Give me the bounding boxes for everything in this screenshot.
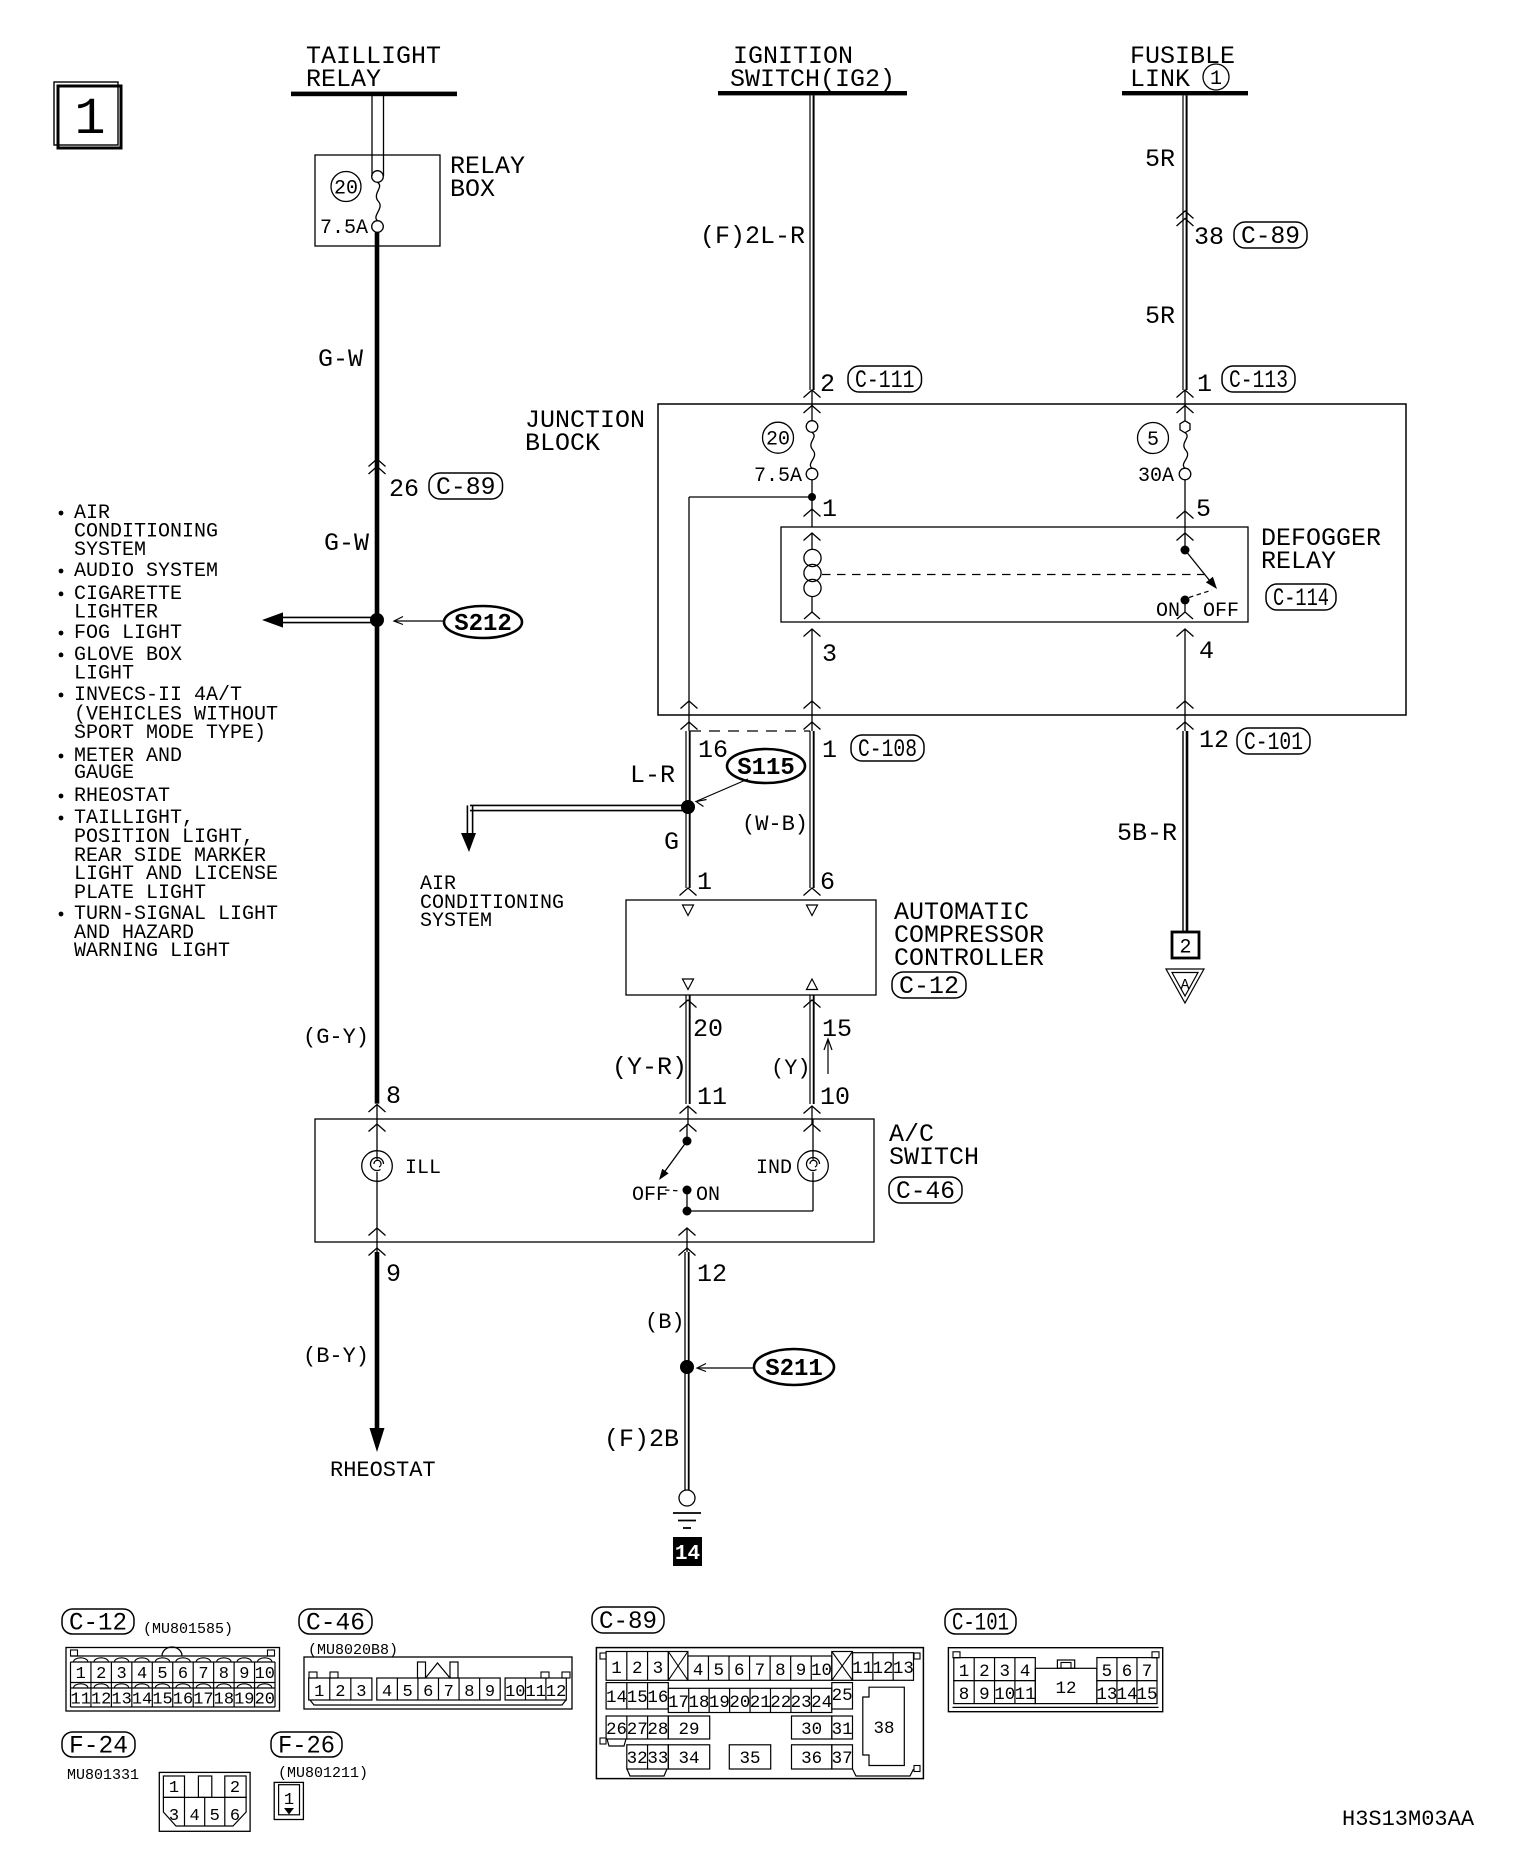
svg-text:20: 20	[334, 178, 358, 201]
svg-text:24: 24	[811, 1693, 832, 1713]
pin 8 into A/C switch	[369, 1082, 402, 1132]
svg-text:4: 4	[1199, 637, 1214, 666]
svg-text:9: 9	[386, 1260, 401, 1289]
svg-text:20: 20	[766, 429, 790, 452]
connector F-24 label	[62, 1732, 135, 1757]
wire taillight relay to relay box (double)	[371, 96, 373, 176]
svg-text:SPORT MODE TYPE): SPORT MODE TYPE)	[74, 722, 266, 745]
svg-text:5B-R: 5B-R	[1117, 819, 1177, 848]
svg-text:C-89: C-89	[1241, 222, 1300, 251]
svg-text:8: 8	[386, 1082, 401, 1111]
svg-text:4: 4	[189, 1807, 199, 1826]
svg-text:1: 1	[1197, 370, 1212, 399]
svg-text:20: 20	[693, 1015, 723, 1044]
splice label S211	[697, 1349, 834, 1385]
svg-text:29: 29	[678, 1720, 699, 1740]
svg-text:FOG LIGHT: FOG LIGHT	[74, 622, 182, 645]
defogger relay coil	[804, 533, 822, 619]
pin 12 connector C-101 below junction block	[1199, 726, 1310, 757]
splice label S212	[394, 606, 522, 638]
svg-text:6: 6	[230, 1807, 240, 1826]
connector C-46 label	[299, 1609, 372, 1634]
wire 5B-R (thick double)	[1182, 731, 1184, 932]
svg-text:28: 28	[647, 1720, 668, 1740]
svg-text:10: 10	[255, 1665, 275, 1684]
connector C-89 label	[592, 1607, 664, 1633]
label AIR CONDITIONING SYSTEM	[420, 873, 564, 933]
svg-text:(B-Y): (B-Y)	[303, 1344, 369, 1369]
svg-text:7.5A: 7.5A	[320, 217, 368, 240]
svg-text:L-R: L-R	[630, 761, 675, 790]
svg-text:5: 5	[157, 1665, 167, 1684]
svg-text:38: 38	[873, 1719, 894, 1739]
svg-text:30: 30	[801, 1720, 822, 1740]
svg-text:22: 22	[770, 1693, 791, 1713]
direction arrow up	[824, 1039, 832, 1074]
svg-text:G-W: G-W	[324, 529, 369, 558]
svg-text:30A: 30A	[1138, 465, 1174, 488]
svg-text:9: 9	[239, 1665, 249, 1684]
svg-text:ON: ON	[696, 1184, 720, 1207]
splice S115 junction dot	[681, 800, 695, 814]
svg-text:(Y): (Y)	[771, 1056, 811, 1081]
svg-text:1: 1	[284, 1791, 294, 1810]
wire (Y) controller to A/C switch (double)	[809, 995, 811, 1104]
svg-text:13: 13	[893, 1659, 914, 1679]
connector C-12 label	[62, 1609, 134, 1634]
svg-text:3: 3	[822, 640, 837, 669]
svg-text:15: 15	[1136, 1685, 1157, 1705]
svg-text:1: 1	[169, 1779, 179, 1798]
svg-text:38: 38	[1194, 223, 1224, 252]
defogger relay contact ON/OFF	[1156, 527, 1239, 623]
svg-text:26: 26	[606, 1720, 627, 1740]
svg-text:C-46: C-46	[896, 1177, 955, 1206]
svg-text:1: 1	[822, 736, 837, 765]
svg-text:2: 2	[1179, 937, 1191, 960]
svg-text:BLOCK: BLOCK	[525, 429, 600, 458]
svg-text:2: 2	[335, 1683, 345, 1702]
svg-text:C-101: C-101	[1244, 728, 1303, 757]
svg-text:11: 11	[71, 1691, 91, 1710]
fusible link fuse 5 30A in junction block	[1138, 390, 1191, 488]
svg-text:20: 20	[729, 1693, 750, 1713]
svg-text:11: 11	[525, 1683, 545, 1702]
svg-text:1: 1	[76, 1665, 86, 1684]
svg-text:4: 4	[693, 1661, 704, 1681]
svg-text:10: 10	[811, 1661, 832, 1681]
pin 3 defogger relay to C-108	[804, 629, 838, 731]
relay box	[315, 152, 525, 246]
page number box 1	[54, 82, 121, 149]
svg-text:F-26: F-26	[278, 1732, 335, 1761]
wire C-108 pin1 down (double)	[809, 731, 811, 888]
svg-text:3: 3	[169, 1807, 179, 1826]
svg-text:SYSTEM: SYSTEM	[420, 910, 492, 933]
svg-text:13: 13	[1096, 1685, 1117, 1705]
pins 1 and 6 into controller	[680, 868, 836, 897]
svg-text:(MU801211): (MU801211)	[278, 1765, 368, 1782]
svg-text:1: 1	[1210, 68, 1222, 91]
svg-text:5: 5	[1196, 495, 1211, 524]
svg-text:ILL: ILL	[405, 1157, 441, 1180]
connector F-26 pinout	[274, 1782, 303, 1819]
svg-text:H3S13M03AA: H3S13M03AA	[1342, 1807, 1475, 1832]
svg-text:1: 1	[611, 1659, 622, 1679]
svg-text:MU801331: MU801331	[67, 1767, 139, 1784]
svg-text:(B): (B)	[645, 1310, 685, 1335]
dashed link coil to contact	[822, 574, 1205, 576]
svg-text:2: 2	[820, 370, 835, 399]
svg-text:11: 11	[852, 1659, 873, 1679]
bullet list of connected systems	[59, 502, 278, 963]
svg-text:12: 12	[1055, 1679, 1076, 1699]
power source label FUSIBLE LINK 1	[1130, 42, 1235, 94]
svg-text:7: 7	[755, 1661, 766, 1681]
fuse 20 7.5A in junction block	[754, 406, 818, 489]
fuse 20 7.5A in relay box	[320, 171, 383, 240]
svg-text:8: 8	[959, 1685, 970, 1705]
wire C-108 pin16 down (double)	[685, 731, 687, 888]
svg-text:23: 23	[791, 1693, 812, 1713]
pins 20 and 15 below controller	[680, 1000, 853, 1044]
svg-text:32: 32	[627, 1749, 648, 1769]
svg-text:5: 5	[1102, 1662, 1113, 1682]
svg-text:2: 2	[979, 1662, 990, 1682]
svg-text:CONTROLLER: CONTROLLER	[894, 944, 1044, 973]
svg-text:27: 27	[627, 1720, 648, 1740]
power source label TAILLIGHT RELAY	[306, 42, 441, 94]
wire ignition switch to junction block (double)	[809, 95, 811, 390]
svg-text:37: 37	[832, 1749, 853, 1769]
svg-text:9: 9	[796, 1661, 807, 1681]
svg-text:1: 1	[822, 495, 837, 524]
svg-text:12: 12	[546, 1683, 566, 1702]
svg-text:RHEOSTAT: RHEOSTAT	[74, 785, 170, 808]
svg-text:10: 10	[820, 1083, 850, 1112]
svg-text:(F)2B: (F)2B	[604, 1425, 679, 1454]
svg-text:14: 14	[675, 1543, 700, 1566]
svg-text:16: 16	[173, 1691, 193, 1710]
pin 4 defogger relay to C-101	[1177, 629, 1215, 731]
svg-text:(G-Y): (G-Y)	[303, 1025, 369, 1050]
svg-text:6: 6	[734, 1661, 745, 1681]
svg-text:14: 14	[132, 1691, 152, 1710]
svg-text:LINK: LINK	[1130, 65, 1190, 94]
wire node1 left branch down to C-108 pin16	[681, 497, 813, 731]
svg-text:5R: 5R	[1145, 302, 1175, 331]
svg-text:16: 16	[698, 736, 728, 765]
svg-text:6: 6	[820, 868, 835, 897]
svg-text:14: 14	[1116, 1685, 1137, 1705]
svg-text:11: 11	[1015, 1685, 1036, 1705]
svg-text:6: 6	[178, 1665, 188, 1684]
svg-text:12: 12	[872, 1659, 893, 1679]
svg-text:C-89: C-89	[599, 1607, 657, 1636]
svg-text:18: 18	[688, 1693, 709, 1713]
pin 2 connector C-111	[804, 366, 922, 413]
svg-text:15: 15	[152, 1691, 172, 1710]
svg-text:15: 15	[627, 1688, 648, 1708]
svg-text:C-89: C-89	[436, 473, 496, 502]
connector crossing 26 C-89	[369, 459, 503, 504]
bus bar ignition switch	[718, 91, 907, 95]
svg-text:7: 7	[1142, 1662, 1153, 1682]
svg-text:8: 8	[464, 1683, 474, 1702]
svg-text:A: A	[1180, 977, 1189, 994]
svg-text:13: 13	[111, 1691, 131, 1710]
svg-text:2: 2	[230, 1779, 240, 1798]
svg-text:9: 9	[979, 1685, 990, 1705]
splice S211 junction dot	[680, 1360, 694, 1374]
node 5 label	[1177, 480, 1212, 527]
svg-text:21: 21	[750, 1693, 771, 1713]
connector F-24 pinout	[159, 1772, 250, 1831]
junction block	[525, 404, 1406, 715]
svg-text:5: 5	[1147, 429, 1159, 452]
connector C-108 dashed	[690, 731, 924, 765]
svg-text:IND: IND	[756, 1157, 792, 1180]
svg-text:6: 6	[1122, 1662, 1133, 1682]
svg-text:2: 2	[632, 1659, 643, 1679]
svg-text:3: 3	[999, 1662, 1010, 1682]
connector crossing 38 C-89	[1177, 211, 1308, 252]
wire (B-Y) to rheostat (thick with arrow)	[303, 1252, 436, 1483]
pins 9 and 12 below A/C switch	[369, 1228, 728, 1289]
svg-text:C-114: C-114	[1273, 584, 1329, 613]
node 1 junction	[804, 480, 838, 527]
off-page triangle A	[1166, 969, 1204, 1003]
svg-text:1: 1	[697, 868, 712, 897]
svg-text:5R: 5R	[1145, 145, 1175, 174]
svg-text:33: 33	[647, 1749, 668, 1769]
svg-text:LIGHT: LIGHT	[74, 663, 134, 686]
svg-text:C-12: C-12	[69, 1609, 127, 1638]
svg-text:19: 19	[234, 1691, 254, 1710]
svg-text:RELAY: RELAY	[306, 65, 381, 94]
svg-text:7.5A: 7.5A	[754, 465, 802, 488]
svg-text:1: 1	[74, 90, 105, 149]
svg-text:12: 12	[1199, 726, 1229, 755]
pin 1 connector C-113	[1177, 366, 1296, 413]
svg-text:7: 7	[198, 1665, 208, 1684]
A/C switch contact OFF/ON	[632, 1124, 720, 1216]
svg-text:PLATE LIGHT: PLATE LIGHT	[74, 882, 206, 905]
ground reference 14	[673, 1537, 702, 1566]
svg-text:G-W: G-W	[318, 345, 363, 374]
svg-text:17: 17	[668, 1693, 689, 1713]
svg-text:5: 5	[210, 1807, 220, 1826]
connector C-101 pinout	[948, 1648, 1162, 1712]
svg-text:11: 11	[697, 1083, 727, 1112]
svg-text:19: 19	[709, 1693, 730, 1713]
automatic compressor controller box	[626, 898, 1044, 1001]
svg-text:RHEOSTAT: RHEOSTAT	[330, 1458, 436, 1483]
svg-text:3: 3	[356, 1683, 366, 1702]
svg-text:25: 25	[832, 1686, 853, 1706]
svg-text:8: 8	[219, 1665, 229, 1684]
svg-text:1: 1	[314, 1683, 324, 1702]
svg-text:7: 7	[444, 1683, 454, 1702]
svg-text:8: 8	[775, 1661, 786, 1681]
svg-text:14: 14	[606, 1688, 627, 1708]
svg-text:C-12: C-12	[899, 972, 959, 1001]
wire G-W relay box to A/C switch (thick)	[375, 232, 380, 1103]
svg-text:GAUGE: GAUGE	[74, 762, 134, 785]
svg-text:12: 12	[697, 1260, 727, 1289]
svg-text:C-101: C-101	[952, 1609, 1009, 1638]
svg-text:1: 1	[959, 1662, 970, 1682]
bus bar taillight relay	[291, 92, 457, 97]
splice S212 junction dot	[370, 613, 384, 627]
wire branch to left systems (double with arrow)	[262, 612, 377, 627]
defogger relay box	[781, 524, 1381, 622]
wire (B) to ground (double)	[684, 1252, 686, 1490]
svg-text:16: 16	[647, 1688, 668, 1708]
connector C-12 pinout	[66, 1647, 280, 1711]
svg-text:34: 34	[678, 1749, 699, 1769]
svg-text:WARNING LIGHT: WARNING LIGHT	[74, 940, 230, 963]
svg-text:OFF: OFF	[632, 1184, 668, 1207]
A/C switch box	[315, 1119, 979, 1242]
svg-text:C-111: C-111	[855, 366, 915, 395]
svg-text:G: G	[664, 828, 679, 857]
svg-text:ON: ON	[1156, 600, 1180, 623]
svg-text:C-46: C-46	[306, 1609, 365, 1638]
svg-text:4: 4	[382, 1683, 392, 1702]
bus bar fusible link	[1122, 91, 1248, 95]
svg-text:S115: S115	[737, 755, 795, 782]
svg-text:10: 10	[505, 1683, 525, 1702]
svg-text:S212: S212	[454, 611, 512, 638]
svg-text:C-108: C-108	[858, 735, 917, 764]
svg-text:SWITCH: SWITCH	[889, 1143, 979, 1172]
svg-text:RELAY: RELAY	[1261, 547, 1336, 576]
connector C-89 pinout	[596, 1648, 923, 1779]
svg-text:2: 2	[96, 1665, 106, 1684]
svg-text:(F)2L-R: (F)2L-R	[700, 222, 805, 251]
svg-text:18: 18	[214, 1691, 234, 1710]
svg-text:31: 31	[832, 1720, 853, 1740]
svg-text:AUDIO SYSTEM: AUDIO SYSTEM	[74, 560, 218, 583]
indicator lamp IND	[687, 1119, 828, 1211]
svg-text:4: 4	[1020, 1662, 1031, 1682]
svg-text:35: 35	[739, 1749, 760, 1769]
pins 11 and 10 into A/C switch	[680, 1083, 851, 1132]
svg-text:36: 36	[801, 1749, 822, 1769]
ground symbol	[673, 1490, 701, 1528]
splice label S115	[696, 749, 805, 807]
svg-text:S211: S211	[765, 1356, 823, 1383]
svg-text:F-24: F-24	[69, 1732, 128, 1761]
svg-text:OFF: OFF	[1203, 600, 1239, 623]
svg-text:(Y-R): (Y-R)	[612, 1053, 687, 1082]
svg-text:5: 5	[713, 1661, 724, 1681]
connector C-46 pinout	[304, 1657, 572, 1709]
svg-text:4: 4	[137, 1665, 147, 1684]
svg-text:3: 3	[653, 1659, 664, 1679]
off-page reference box 2	[1172, 932, 1199, 960]
svg-text:(W-B): (W-B)	[742, 812, 808, 837]
svg-text:12: 12	[91, 1691, 111, 1710]
svg-text:20: 20	[255, 1691, 275, 1710]
svg-text:3: 3	[117, 1665, 127, 1684]
svg-text:6: 6	[423, 1683, 433, 1702]
wire (Y-R) controller to A/C switch (double)	[685, 995, 687, 1104]
svg-text:BOX: BOX	[450, 175, 495, 204]
svg-text:SWITCH(IG2): SWITCH(IG2)	[730, 65, 895, 94]
svg-text:26: 26	[389, 475, 419, 504]
wire fusible link down (double)	[1182, 95, 1184, 390]
svg-text:9: 9	[485, 1683, 495, 1702]
svg-text:C-113: C-113	[1229, 366, 1288, 395]
power source label IGNITION SWITCH(IG2)	[730, 42, 895, 94]
svg-text:5: 5	[403, 1683, 413, 1702]
illumination lamp ILL	[362, 1124, 441, 1228]
svg-text:SYSTEM: SYSTEM	[74, 539, 146, 562]
connector C-101 label	[945, 1609, 1016, 1634]
svg-text:(MU801585): (MU801585)	[143, 1621, 233, 1638]
wire branch to air conditioning system (double with arrow)	[461, 805, 688, 852]
connector F-26 label	[271, 1732, 342, 1757]
svg-text:15: 15	[822, 1015, 852, 1044]
svg-text:10: 10	[994, 1685, 1015, 1705]
svg-text:17: 17	[193, 1691, 213, 1710]
